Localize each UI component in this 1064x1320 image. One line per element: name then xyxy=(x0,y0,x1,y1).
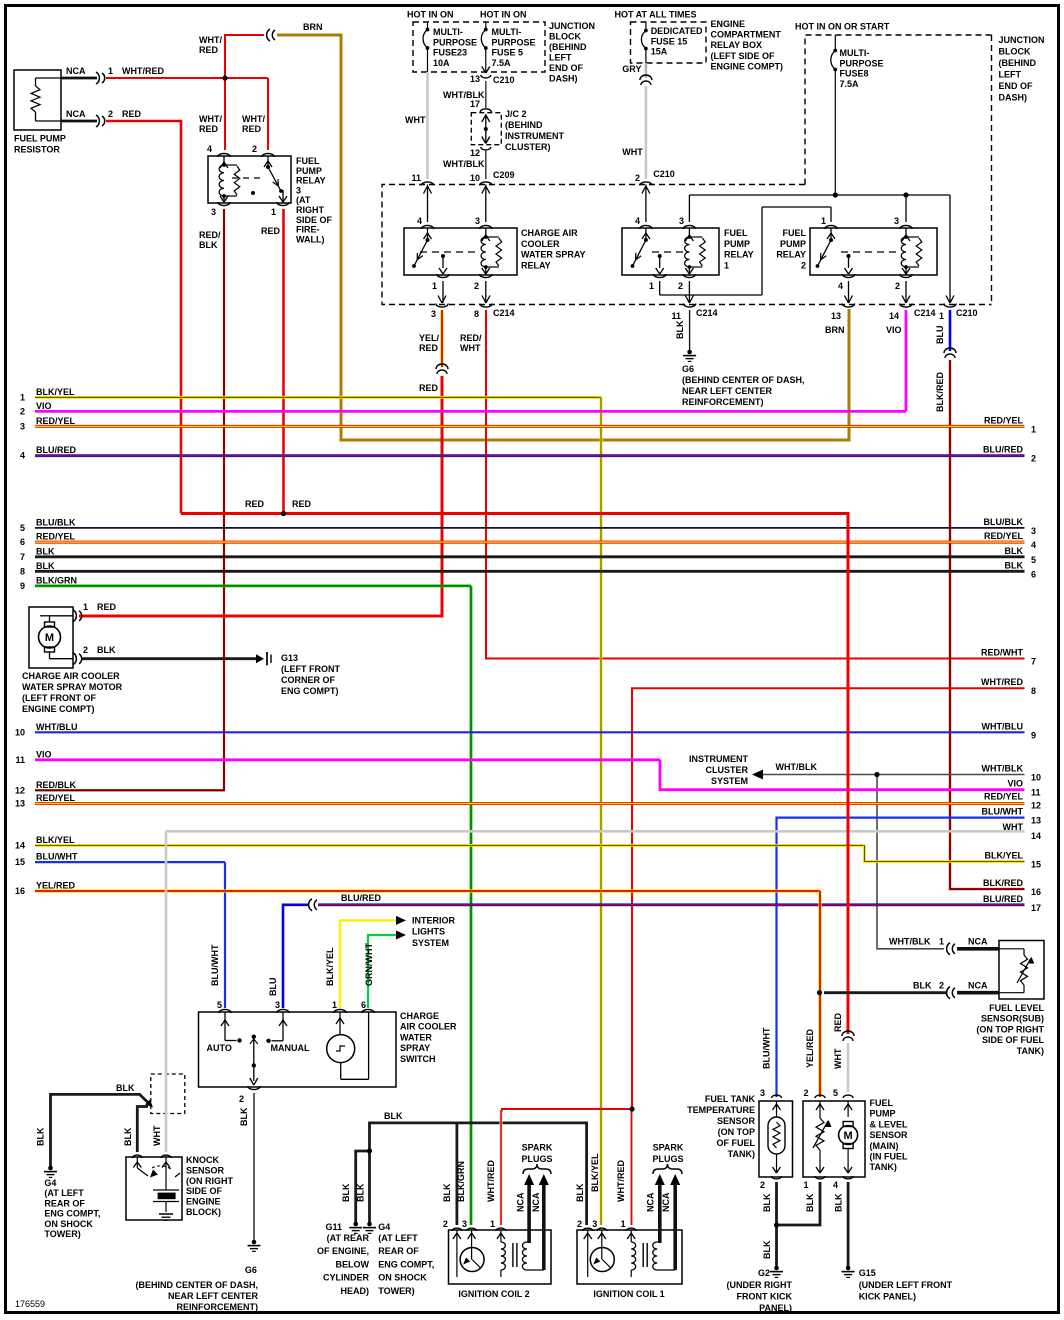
wire FP relay2 pin4 down to C214 xyxy=(848,281,850,303)
fuel tank temperature sensor box xyxy=(759,1101,793,1177)
svg-text:SIDE OF FUEL: SIDE OF FUEL xyxy=(982,1035,1045,1045)
svg-text:SYSTEM: SYSTEM xyxy=(711,776,748,786)
svg-text:1: 1 xyxy=(939,311,944,321)
svg-text:WHT/BLU: WHT/BLU xyxy=(982,721,1024,731)
svg-text:BLU: BLU xyxy=(268,978,278,997)
svg-text:(AT: (AT xyxy=(296,195,311,205)
svg-text:BLU/RED: BLU/RED xyxy=(983,445,1023,455)
wire WHT/BLK fuse5 to JC2 xyxy=(485,81,487,108)
svg-text:4: 4 xyxy=(1031,540,1036,550)
wire CACWS pin1 down to C214 xyxy=(442,281,444,303)
svg-text:6: 6 xyxy=(20,537,25,547)
wire WHT horizontal to right wire 14 xyxy=(166,830,1025,833)
coil2 pin 1 xyxy=(496,1228,506,1231)
wire BLK left 8 xyxy=(35,570,1025,573)
wire BLK temp sensor to G2 xyxy=(775,1182,778,1266)
svg-text:SENSOR: SENSOR xyxy=(717,1116,756,1126)
svg-text:AIR COOLER: AIR COOLER xyxy=(400,1022,457,1032)
svg-text:GRY: GRY xyxy=(622,64,641,74)
NCA lead pin 1 xyxy=(61,77,97,80)
fuse 23 multi-purpose xyxy=(427,22,429,29)
svg-text:13: 13 xyxy=(831,311,841,321)
svg-text:BLU/RED: BLU/RED xyxy=(341,893,381,903)
ignition coil 2 box xyxy=(449,1230,552,1284)
wire YEL/RED down to fuel pump sensor pin 2 xyxy=(818,891,821,1097)
svg-text:HOT IN ON OR START: HOT IN ON OR START xyxy=(795,22,890,32)
coil2 pin 2 xyxy=(452,1228,462,1231)
svg-text:BLK: BLK xyxy=(762,1240,772,1259)
svg-text:2: 2 xyxy=(760,1180,765,1190)
wire BLK/YEL jog to right wire 15 xyxy=(865,845,1025,861)
svg-text:BLK/RED: BLK/RED xyxy=(935,372,945,412)
svg-text:(ON TOP RIGHT: (ON TOP RIGHT xyxy=(976,1024,1044,1034)
svg-text:YEL/RED: YEL/RED xyxy=(805,1028,815,1068)
svg-text:HEAD): HEAD) xyxy=(341,1286,370,1296)
connector 3 C214 xyxy=(436,304,448,308)
relay 3 dashed link xyxy=(232,177,263,179)
svg-text:RED/YEL: RED/YEL xyxy=(36,532,76,542)
CACWS relay pin 4 xyxy=(421,225,433,229)
svg-text:BLK/YEL: BLK/YEL xyxy=(36,387,75,397)
svg-text:HOT AT ALL TIMES: HOT AT ALL TIMES xyxy=(615,10,697,20)
svg-text:C214: C214 xyxy=(493,308,515,318)
svg-text:JUNCTION: JUNCTION xyxy=(999,35,1045,45)
svg-text:BLK: BLK xyxy=(675,320,685,339)
wire WHT fuse23 down to C209 xyxy=(426,72,429,179)
svg-text:(UNDER RIGHT: (UNDER RIGHT xyxy=(727,1280,793,1290)
svg-text:IGNITION COIL 1: IGNITION COIL 1 xyxy=(593,1289,664,1299)
wire BLU below C210 xyxy=(949,310,952,351)
wire FP relay1 pin2 down to C214 xyxy=(688,281,690,303)
ground G13 sideways xyxy=(266,652,268,665)
FP relay1 pins 1 2 xyxy=(654,274,666,278)
dedicated fuse 15 xyxy=(645,22,647,30)
svg-text:FUEL: FUEL xyxy=(724,228,748,238)
svg-text:17: 17 xyxy=(470,99,480,109)
fp sensor level resistor xyxy=(819,1101,821,1118)
wire RED relay3 pin1 down to jog xyxy=(282,209,285,514)
wire RED/WHT below C214 to right edge wire 7 xyxy=(486,310,1025,659)
svg-text:JUNCTION: JUNCTION xyxy=(549,21,595,31)
svg-text:NEAR LEFT CENTER: NEAR LEFT CENTER xyxy=(168,1291,259,1301)
svg-text:MULTI-: MULTI- xyxy=(840,48,870,58)
wire FP relay2 pin2 down to C214 xyxy=(905,281,907,303)
svg-text:END OF: END OF xyxy=(999,81,1034,91)
wire BLK/YEL switch pin1 to interior lights xyxy=(340,920,396,1008)
connector 17 JC2 xyxy=(480,109,491,112)
wire BLK to G4 right xyxy=(368,1151,371,1222)
svg-text:RED: RED xyxy=(292,499,312,509)
connector inline GRY-WHT xyxy=(640,75,652,80)
wire WHT/RED down to coil1 pin1 xyxy=(630,1109,633,1225)
wire RED/YEL left 6 xyxy=(35,541,1025,544)
svg-text:YEL/: YEL/ xyxy=(419,333,440,343)
wire RED/YEL left 3 xyxy=(35,425,1025,428)
wire BLU/BLK left 5 xyxy=(35,527,1025,529)
svg-text:BRN: BRN xyxy=(825,325,845,335)
coil2 pin 3 xyxy=(467,1228,477,1231)
svg-text:G4: G4 xyxy=(378,1222,390,1232)
wire RED down to motor branch xyxy=(79,376,442,616)
svg-text:VIO: VIO xyxy=(1007,779,1023,789)
svg-text:CLUSTER): CLUSTER) xyxy=(505,142,551,152)
svg-text:PUMP: PUMP xyxy=(870,1109,896,1119)
svg-text:BLK: BLK xyxy=(1005,560,1024,570)
svg-text:RED: RED xyxy=(833,1012,843,1032)
svg-text:RELAY: RELAY xyxy=(724,250,754,260)
svg-text:BLU/BLK: BLU/BLK xyxy=(984,517,1024,527)
knock sensor pins xyxy=(132,1155,142,1158)
wire WHT/RED branch to coil2 pin1 xyxy=(502,1109,632,1112)
svg-text:INSTRUMENT: INSTRUMENT xyxy=(689,754,748,764)
svg-text:WATER SPRAY: WATER SPRAY xyxy=(521,250,586,260)
svg-text:(IN FUEL: (IN FUEL xyxy=(870,1152,908,1162)
svg-text:C210: C210 xyxy=(653,169,675,179)
svg-text:WHT: WHT xyxy=(1003,822,1024,832)
svg-text:2: 2 xyxy=(474,281,479,291)
JC2 internal xyxy=(485,114,487,144)
relay 3 switch xyxy=(267,156,269,166)
svg-text:5: 5 xyxy=(1031,555,1036,565)
svg-text:11: 11 xyxy=(15,755,25,765)
svg-text:5: 5 xyxy=(217,1000,222,1010)
svg-text:3: 3 xyxy=(431,309,436,319)
svg-text:WHT/: WHT/ xyxy=(242,114,265,124)
wire YEL/RED below C214 xyxy=(440,310,443,367)
svg-text:WHT/RED: WHT/RED xyxy=(981,677,1023,687)
svg-text:2: 2 xyxy=(635,173,640,183)
ground G2 xyxy=(770,1271,783,1273)
svg-text:J/C 2: J/C 2 xyxy=(505,109,527,119)
multi-purpose fuse 8 xyxy=(834,35,836,50)
relay assembly dashed box xyxy=(382,185,992,305)
svg-text:5: 5 xyxy=(833,1088,838,1098)
svg-text:BLU: BLU xyxy=(935,326,945,345)
svg-text:2: 2 xyxy=(252,144,257,154)
svg-text:WALL): WALL) xyxy=(296,234,325,244)
svg-text:FUSE 15: FUSE 15 xyxy=(651,36,688,46)
wire BLK left 7 xyxy=(35,555,1025,558)
svg-text:FUEL: FUEL xyxy=(783,228,807,238)
svg-text:11: 11 xyxy=(411,173,421,183)
motor pin 1 connector xyxy=(73,610,76,622)
svg-text:BLOCK: BLOCK xyxy=(549,32,581,42)
svg-text:4: 4 xyxy=(207,144,212,154)
svg-text:BLK/GRN: BLK/GRN xyxy=(456,1161,466,1202)
wire BLK to G11 xyxy=(356,1151,370,1222)
svg-text:FUEL: FUEL xyxy=(296,156,320,166)
svg-text:SENSOR: SENSOR xyxy=(870,1130,909,1140)
fp sensor pins 1 4 xyxy=(815,1176,825,1179)
svg-text:NCA: NCA xyxy=(968,937,988,947)
switch internals xyxy=(224,1012,226,1041)
wire BLK branch to coil2 pin2 xyxy=(455,1123,458,1225)
svg-text:REAR OF: REAR OF xyxy=(378,1246,419,1256)
wire BLK below C214 to ground G6 xyxy=(689,310,691,350)
svg-text:WHT/RED: WHT/RED xyxy=(616,1160,626,1202)
relay 3 pin 1 xyxy=(277,202,289,206)
ground G11 xyxy=(349,1227,362,1229)
wire BLK/GRN vertical to coil2 pin3 xyxy=(470,586,473,1225)
svg-text:BLK: BLK xyxy=(123,1127,133,1146)
svg-text:2: 2 xyxy=(803,1088,808,1098)
fuel level sensor sub box xyxy=(999,941,1044,1000)
wire RED resistor pin2 to left vertical xyxy=(106,121,181,514)
svg-text:RELAY: RELAY xyxy=(521,260,551,270)
svg-text:10: 10 xyxy=(1031,773,1041,783)
svg-text:(MAIN): (MAIN) xyxy=(870,1141,899,1151)
svg-text:CLUSTER: CLUSTER xyxy=(706,765,749,775)
svg-text:BLK: BLK xyxy=(36,546,55,556)
svg-text:BLK/RED: BLK/RED xyxy=(983,878,1023,888)
wire BLU/WHT left 15 xyxy=(35,861,225,863)
svg-text:SPRAY: SPRAY xyxy=(400,1043,430,1053)
svg-text:8: 8 xyxy=(1031,686,1036,696)
svg-text:BLU/RED: BLU/RED xyxy=(983,894,1023,904)
svg-text:MANUAL: MANUAL xyxy=(271,1043,310,1053)
svg-text:ENGINE: ENGINE xyxy=(186,1197,221,1207)
svg-text:FUEL: FUEL xyxy=(870,1098,894,1108)
wire WHT/RED right to coil1 xyxy=(632,688,1025,1109)
coil1 internals xyxy=(587,1230,589,1277)
svg-text:PUMP: PUMP xyxy=(296,166,322,176)
svg-text:3: 3 xyxy=(275,1000,280,1010)
svg-text:M: M xyxy=(844,1130,853,1142)
wire BRN top xyxy=(277,35,849,440)
svg-text:(AT REAR: (AT REAR xyxy=(327,1233,370,1243)
svg-text:NCA: NCA xyxy=(968,981,988,991)
svg-text:LIGHTS: LIGHTS xyxy=(412,927,445,937)
svg-text:M: M xyxy=(45,632,54,644)
svg-text:SYSTEM: SYSTEM xyxy=(412,938,449,948)
svg-text:BLK/YEL: BLK/YEL xyxy=(590,1153,600,1192)
wire NCA to sensor sub bottom xyxy=(957,991,999,995)
svg-text:ON SHOCK: ON SHOCK xyxy=(44,1219,93,1229)
svg-text:9: 9 xyxy=(1031,730,1036,740)
sensor sub resistor xyxy=(1021,955,1028,985)
switch pin 6 xyxy=(362,1009,374,1013)
svg-text:2: 2 xyxy=(577,1219,582,1229)
wire RED down to inline connector xyxy=(847,514,850,1035)
wire WHT/RED down to relay pin 2 xyxy=(267,78,269,150)
connector 11 C209 xyxy=(421,182,433,186)
svg-text:PURPOSE: PURPOSE xyxy=(492,37,536,47)
svg-text:13: 13 xyxy=(15,799,25,809)
svg-text:BLK: BLK xyxy=(239,1107,249,1126)
wire GRN/WHT switch pin6 to interior lights xyxy=(368,935,396,1008)
wire BLK coils ground net xyxy=(370,1123,587,1225)
wire BLK motor pin2 to G13 xyxy=(81,657,258,660)
svg-text:RED/WHT: RED/WHT xyxy=(981,648,1023,658)
svg-text:DASH): DASH) xyxy=(549,74,578,84)
svg-text:11: 11 xyxy=(1031,788,1041,798)
svg-text:1: 1 xyxy=(1031,424,1036,434)
svg-text:PURPOSE: PURPOSE xyxy=(433,37,477,47)
FP relay1 coil xyxy=(688,228,690,237)
CACWS relay common contact xyxy=(442,256,444,268)
wire BLU to switch pin 3 xyxy=(283,905,308,1008)
svg-text:1: 1 xyxy=(821,216,826,226)
svg-text:WHT: WHT xyxy=(460,343,481,353)
svg-text:BLOCK: BLOCK xyxy=(999,47,1031,57)
connector inline YEL/RED to RED xyxy=(436,364,448,369)
connector 13 C214 xyxy=(842,304,854,308)
motor M symbol xyxy=(45,622,55,627)
wire WHT/RED junction up to BRN connector xyxy=(225,35,264,78)
svg-text:BLK: BLK xyxy=(199,240,218,250)
svg-text:3: 3 xyxy=(592,1219,597,1229)
svg-text:G11: G11 xyxy=(325,1222,342,1232)
svg-text:4: 4 xyxy=(833,1180,838,1190)
svg-text:15A: 15A xyxy=(651,47,668,57)
svg-text:RED: RED xyxy=(97,602,117,612)
knock sensor box xyxy=(126,1157,182,1220)
svg-text:NCA: NCA xyxy=(66,66,86,76)
svg-text:WHT/BLK: WHT/BLK xyxy=(982,764,1024,774)
wire BLU/WHT right to temp sensor xyxy=(777,818,1025,1097)
wire BLK/YEL vertical to coil1 pin3 xyxy=(600,397,603,1225)
svg-text:LEFT: LEFT xyxy=(999,70,1022,80)
svg-text:3: 3 xyxy=(475,216,480,226)
svg-text:INSTRUMENT: INSTRUMENT xyxy=(505,131,564,141)
svg-text:6: 6 xyxy=(361,1000,366,1010)
svg-text:(AT LEFT: (AT LEFT xyxy=(44,1188,84,1198)
motor pin 2 connector xyxy=(73,653,76,665)
connector inline RED to WHT xyxy=(842,1031,854,1036)
FP relay2 pin 1 xyxy=(825,225,837,229)
wire BLK knock sensor to G4 xyxy=(51,1094,151,1166)
temp sensor pin 3 xyxy=(772,1095,782,1098)
svg-text:REINFORCEMENT): REINFORCEMENT) xyxy=(177,1302,259,1312)
svg-text:RELAY BOX: RELAY BOX xyxy=(711,40,763,50)
svg-text:FRONT KICK: FRONT KICK xyxy=(737,1292,793,1302)
svg-text:3: 3 xyxy=(1031,526,1036,536)
svg-text:CYLINDER: CYLINDER xyxy=(323,1273,370,1283)
svg-text:BLU/WHT: BLU/WHT xyxy=(210,944,220,986)
svg-text:CHARGE AIR COOLER: CHARGE AIR COOLER xyxy=(22,671,120,681)
wire WHT/RED down to relay pin 4 xyxy=(224,78,226,150)
svg-text:RED/YEL: RED/YEL xyxy=(36,416,76,426)
svg-text:OF ENGINE,: OF ENGINE, xyxy=(317,1246,369,1256)
svg-text:FUSE 5: FUSE 5 xyxy=(492,48,524,58)
FP relay2 coil xyxy=(905,228,907,237)
wire BLK fp pin4 to G15 xyxy=(847,1182,850,1266)
svg-text:13: 13 xyxy=(1031,816,1041,826)
svg-text:DASH): DASH) xyxy=(999,93,1028,103)
svg-text:RED/: RED/ xyxy=(460,333,482,343)
connector 2 C210 xyxy=(640,182,652,186)
svg-text:1: 1 xyxy=(621,1219,626,1229)
wire RED/YEL left 13 xyxy=(35,802,1025,805)
svg-text:NCA: NCA xyxy=(66,109,86,119)
svg-text:(ON TOP: (ON TOP xyxy=(718,1127,755,1137)
svg-text:CHARGE AIR: CHARGE AIR xyxy=(521,228,578,238)
svg-text:3: 3 xyxy=(462,1219,467,1229)
svg-text:G2: G2 xyxy=(758,1268,770,1278)
connector 14 C214 xyxy=(900,304,912,308)
wire RED/BLK relay3 pin3 down to wire 12 xyxy=(35,209,224,790)
svg-text:RIGHT: RIGHT xyxy=(296,205,325,215)
svg-text:14: 14 xyxy=(1031,831,1041,841)
svg-text:12: 12 xyxy=(15,785,25,795)
svg-text:BLK: BLK xyxy=(97,645,116,655)
svg-text:PLUGS: PLUGS xyxy=(521,1154,552,1164)
svg-text:AUTO: AUTO xyxy=(207,1043,232,1053)
svg-text:1: 1 xyxy=(939,937,944,947)
svg-text:BLK: BLK xyxy=(384,1111,403,1121)
node relay2 pin3 junction xyxy=(905,195,907,222)
svg-text:BLK/GRN: BLK/GRN xyxy=(36,575,77,585)
NCA lead pin 2 xyxy=(61,120,97,123)
svg-text:BLK/YEL: BLK/YEL xyxy=(325,947,335,986)
CACWS relay coil xyxy=(485,228,487,237)
wire WHT to relay1 pin 4 xyxy=(645,185,647,223)
svg-text:RED: RED xyxy=(199,124,219,134)
svg-text:1: 1 xyxy=(432,281,437,291)
coil1 spark plug wires NCA xyxy=(658,1184,662,1243)
svg-text:REAR OF: REAR OF xyxy=(44,1198,85,1208)
switch pin 5 xyxy=(219,1009,231,1013)
svg-text:BLK: BLK xyxy=(36,561,55,571)
svg-text:13: 13 xyxy=(470,74,480,84)
svg-text:NCA: NCA xyxy=(661,1192,671,1212)
wire WHT/BLU left 10 xyxy=(35,731,1025,733)
svg-text:TOWER): TOWER) xyxy=(44,1229,80,1239)
ground G15 xyxy=(842,1271,855,1273)
svg-text:ENG COMPT): ENG COMPT) xyxy=(281,686,339,696)
wire VIO left 11 xyxy=(35,758,660,761)
svg-text:(AT LEFT: (AT LEFT xyxy=(378,1233,418,1243)
wire BLK/YEL left 1 xyxy=(35,396,601,399)
svg-text:& LEVEL: & LEVEL xyxy=(870,1119,909,1129)
svg-text:12: 12 xyxy=(1031,801,1041,811)
svg-text:REINFORCEMENT): REINFORCEMENT) xyxy=(682,397,764,407)
svg-text:BLK/YEL: BLK/YEL xyxy=(984,851,1023,861)
svg-text:SWITCH: SWITCH xyxy=(400,1054,436,1064)
svg-text:BELOW: BELOW xyxy=(336,1259,370,1269)
svg-text:(UNDER LEFT FRONT: (UNDER LEFT FRONT xyxy=(859,1280,953,1290)
svg-text:3: 3 xyxy=(760,1088,765,1098)
svg-text:BLU/BLK: BLU/BLK xyxy=(36,517,76,527)
fp sensor pin 5 xyxy=(843,1095,853,1098)
svg-text:RED/YEL: RED/YEL xyxy=(984,415,1024,425)
wire BLK/RED down to right wire 16 xyxy=(950,360,1025,889)
FP relay1 dashed link xyxy=(652,251,684,253)
coil1 pin 3 xyxy=(597,1228,607,1231)
wire BLK/YEL left 14 xyxy=(35,844,865,847)
svg-text:C209: C209 xyxy=(493,170,515,180)
svg-text:TOWER): TOWER) xyxy=(378,1286,414,1296)
svg-text:TANK): TANK) xyxy=(728,1149,755,1159)
svg-text:BLK: BLK xyxy=(1005,546,1024,556)
svg-text:COOLER: COOLER xyxy=(521,239,560,249)
coil1 pin 1 xyxy=(626,1228,636,1231)
svg-text:YEL/RED: YEL/RED xyxy=(36,881,76,891)
svg-text:3: 3 xyxy=(211,207,216,217)
wire VIO left 2 xyxy=(35,410,906,413)
wire YEL/RED left 16 xyxy=(35,889,820,892)
wire BLU/RED right wire 17 xyxy=(318,903,1025,906)
wire RED jog horizontal xyxy=(181,514,848,1035)
engine compartment relay box dashed xyxy=(631,22,707,63)
ground G6 switch xyxy=(248,1245,261,1247)
svg-text:2: 2 xyxy=(895,281,900,291)
wire RED/BLK left 12 xyxy=(35,789,224,791)
connector 13 C210 xyxy=(481,75,491,78)
svg-text:10: 10 xyxy=(15,727,25,737)
wire VIO jog to right wire 11 xyxy=(660,760,1025,790)
svg-text:BLK: BLK xyxy=(805,1193,815,1212)
